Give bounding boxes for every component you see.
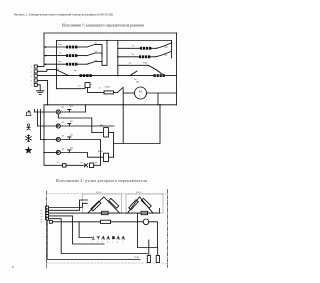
indicator icon star — [25, 147, 32, 154]
wire — [77, 55, 87, 57]
switch S6 — [155, 51, 172, 57]
wire coil wires — [109, 156, 114, 158]
svg-text:1гр: 1гр — [58, 43, 62, 46]
svg-text:Л2: Л2 — [62, 122, 66, 124]
switch S4 — [57, 70, 70, 76]
heater element E1 — [66, 46, 77, 49]
svg-text:КМ1: КМ1 — [98, 150, 104, 153]
heater row 1 wire — [44, 46, 66, 48]
boundary dash-dot right — [166, 190, 168, 268]
indicator icon fan — [26, 111, 31, 116]
wire — [95, 53, 102, 56]
bus line a — [34, 110, 36, 113]
svg-text:Вм: Вм — [136, 81, 140, 84]
svg-text:а3: а3 — [41, 216, 43, 218]
slanted resistor 2R — [141, 198, 151, 208]
box Вк — [85, 83, 90, 88]
relay coil KM1 — [103, 153, 108, 161]
wire coil left — [92, 131, 104, 133]
switch S5 — [157, 43, 172, 49]
resistor row wire — [88, 88, 105, 93]
wire — [114, 91, 118, 93]
terminal X3 — [34, 74, 37, 77]
node junctions bottom bus — [47, 104, 49, 106]
fuse F2 — [156, 256, 159, 263]
svg-text:Л3: Л3 — [62, 135, 66, 137]
svg-text:М: М — [139, 90, 142, 94]
right group row B wire — [118, 56, 139, 58]
svg-text:5в: 5в — [129, 61, 132, 64]
boundary dash-dot left — [46, 191, 48, 268]
node — [43, 139, 45, 141]
node — [43, 125, 45, 127]
switch S3 — [87, 62, 95, 65]
svg-text:К1: К1 — [70, 106, 74, 108]
svg-text:1о: 1о — [78, 85, 81, 88]
svg-text:Рисунок 3. Электрическая схема: Рисунок 3. Электрическая схема соединени… — [14, 12, 113, 16]
wire top bus — [44, 32, 177, 34]
node — [117, 56, 119, 58]
svg-text:3: 3 — [102, 241, 103, 243]
slanted resistor 1L — [91, 201, 101, 211]
svg-text:1: 1 — [139, 94, 141, 97]
indicator icon figure — [27, 124, 31, 130]
connector labels — [41, 210, 43, 224]
svg-text:а1: а1 — [41, 210, 43, 212]
svg-text:4: 4 — [31, 81, 33, 83]
wire conn bottom drop — [47, 220, 140, 259]
wire — [37, 66, 44, 68]
svg-text:5: 5 — [31, 85, 33, 87]
wire — [151, 47, 156, 49]
wire — [77, 46, 87, 48]
wire coil right drop — [108, 132, 113, 157]
wire base drop — [138, 213, 158, 247]
svg-text:4а: 4а — [95, 162, 97, 164]
bus line c — [40, 110, 42, 140]
svg-text:1в: 1в — [132, 44, 135, 47]
svg-text:Исполнение 1: клавишного перек: Исполнение 1: клавишного переключателя р… — [62, 24, 144, 28]
wire conn row2 base line — [49, 209, 160, 214]
wire second bus — [57, 40, 172, 42]
wire — [77, 63, 87, 65]
svg-text:3в: 3в — [132, 53, 135, 56]
boundary dashed bottom — [47, 262, 168, 264]
bottom row SA — [44, 164, 63, 166]
right group row A wire — [118, 47, 140, 49]
resistor R1 — [101, 220, 111, 223]
svg-text:2: 2 — [97, 241, 98, 243]
wire — [37, 69, 56, 71]
svg-text:2: 2 — [31, 71, 32, 73]
terminal X4 — [34, 79, 37, 82]
svg-text:220В: 220В — [134, 257, 139, 259]
svg-text:4: 4 — [107, 241, 108, 243]
svg-text:К2: К2 — [70, 121, 74, 123]
wire conn row4 — [49, 219, 148, 254]
resistor R — [104, 91, 114, 94]
rotary switch triangle 1 — [88, 197, 120, 213]
svg-text:КМ: КМ — [100, 124, 105, 127]
motor M1 — [135, 87, 147, 99]
switch module box 1 — [83, 194, 122, 213]
terminal X5 — [34, 83, 37, 86]
slanted resistor 1R — [109, 198, 119, 208]
wire left bus lower — [43, 105, 45, 165]
wire motor loop — [157, 93, 159, 105]
wire vertical from 2nd bus — [56, 41, 58, 89]
wire comb drop — [79, 222, 92, 238]
svg-text:5А: 5А — [57, 161, 60, 164]
switch module box 2 — [126, 194, 163, 213]
svg-text:К4: К4 — [70, 147, 74, 149]
heater element E6 — [154, 74, 165, 77]
heater element E3 — [66, 63, 77, 66]
base contact 1 — [102, 211, 109, 214]
wire right loop — [114, 89, 160, 144]
wire — [150, 56, 155, 58]
svg-text:хп: хп — [80, 162, 83, 164]
lamp row 2 — [38, 125, 58, 127]
svg-text:а2: а2 — [41, 213, 43, 215]
wire — [95, 44, 102, 47]
fuse F1 — [147, 256, 150, 263]
svg-text:8: 8 — [12, 265, 14, 269]
heater row 3 wire — [44, 63, 66, 65]
svg-text:1: 1 — [31, 67, 32, 69]
wire motor feed — [123, 92, 134, 94]
heater element E7 — [80, 74, 92, 77]
node — [117, 75, 119, 77]
svg-text:Исполнение 2: ручка роторного: Исполнение 2: ручка роторного переключат… — [56, 179, 147, 183]
boundary dashed top — [47, 193, 168, 195]
svg-text:а5: а5 — [41, 222, 43, 224]
svg-text:7: 7 — [122, 241, 123, 243]
svg-text:а4: а4 — [41, 219, 43, 221]
terminal X2 — [34, 70, 37, 73]
svg-text:Л4: Л4 — [62, 148, 66, 150]
wire bottom bus — [44, 104, 177, 106]
wire right inner vertical — [171, 41, 173, 59]
wire — [94, 164, 101, 166]
wire joining verticals — [101, 47, 103, 65]
wire conn row3 — [49, 216, 104, 244]
node row2 — [45, 55, 47, 57]
heater row 2 wire — [44, 55, 66, 57]
svg-text:3: 3 — [31, 76, 33, 78]
switch S7 — [148, 65, 163, 75]
comb labels — [92, 241, 123, 243]
lamp row 4 — [44, 152, 58, 154]
wire left main bus — [43, 33, 45, 67]
svg-text:SA1.1: SA1.1 — [96, 191, 102, 194]
switch on row D — [130, 71, 137, 76]
lamp HL — [143, 219, 149, 225]
svg-text:5: 5 — [112, 241, 113, 243]
wire conn row5 resistor feed — [52, 221, 100, 223]
switch S1 — [87, 44, 95, 47]
thermal contact K4 — [60, 150, 103, 157]
wire conn row0 — [49, 203, 88, 207]
vertical join right rows — [117, 41, 119, 76]
node — [43, 111, 45, 113]
svg-text:h: h — [99, 86, 101, 89]
wire relay feed — [58, 114, 92, 132]
svg-text:К3: К3 — [70, 134, 74, 136]
thermal contact K2 — [60, 123, 114, 126]
svg-text:6: 6 — [117, 241, 118, 243]
heater element E5 — [139, 55, 150, 58]
svg-text:3гр: 3гр — [74, 69, 78, 72]
wire — [37, 80, 47, 104]
wire long row D — [37, 75, 153, 77]
switch S2 — [87, 53, 95, 56]
bus line b — [37, 110, 39, 127]
wire — [149, 222, 158, 248]
wire — [85, 105, 87, 112]
relay coil KM — [104, 128, 109, 137]
wire right edge — [176, 33, 178, 105]
heater element E4 — [140, 47, 151, 50]
rotary switch triangle 2 — [128, 197, 154, 213]
terminal X1 — [34, 65, 37, 68]
lamp row 1 — [35, 111, 57, 113]
slanted resistor 2L — [129, 200, 139, 210]
svg-text:4в: 4в — [165, 54, 168, 57]
wire — [111, 221, 144, 223]
node — [106, 40, 108, 42]
ground — [36, 91, 44, 95]
wire — [66, 164, 84, 166]
node row1 — [45, 46, 47, 48]
wire vertical join — [102, 41, 107, 66]
node — [43, 152, 45, 154]
svg-text:1в: 1в — [59, 52, 62, 55]
svg-text:СВ1: СВ1 — [143, 61, 148, 64]
svg-text:п: п — [91, 84, 93, 86]
svg-text:2гр: 2гр — [58, 60, 62, 63]
svg-text:1: 1 — [92, 241, 93, 243]
wire box feed — [57, 88, 86, 90]
wire — [165, 75, 177, 77]
node row3 — [45, 63, 47, 65]
svg-text:Л1: Л1 — [62, 107, 66, 109]
svg-text:4гр: 4гр — [165, 45, 169, 48]
lamp row 3 — [41, 139, 58, 141]
thermal contact K1 — [60, 109, 85, 112]
base contact 2 — [141, 211, 148, 214]
terminal comb — [92, 236, 125, 239]
right group row C wire — [118, 64, 148, 66]
svg-text:220В: 220В — [105, 85, 111, 88]
wire motor right — [147, 92, 177, 94]
thermal contact K3 — [60, 137, 100, 165]
small box — [90, 163, 94, 168]
wire conn row1 — [49, 200, 88, 210]
heater element E2 — [66, 54, 77, 57]
indicator icon snowflake — [26, 135, 32, 142]
switch — [118, 87, 124, 92]
svg-text:SA1.2: SA1.2 — [136, 191, 142, 194]
wire — [95, 61, 102, 63]
connector block X2 — [46, 206, 53, 223]
wire to ground — [37, 85, 40, 91]
connector X — [84, 164, 87, 167]
